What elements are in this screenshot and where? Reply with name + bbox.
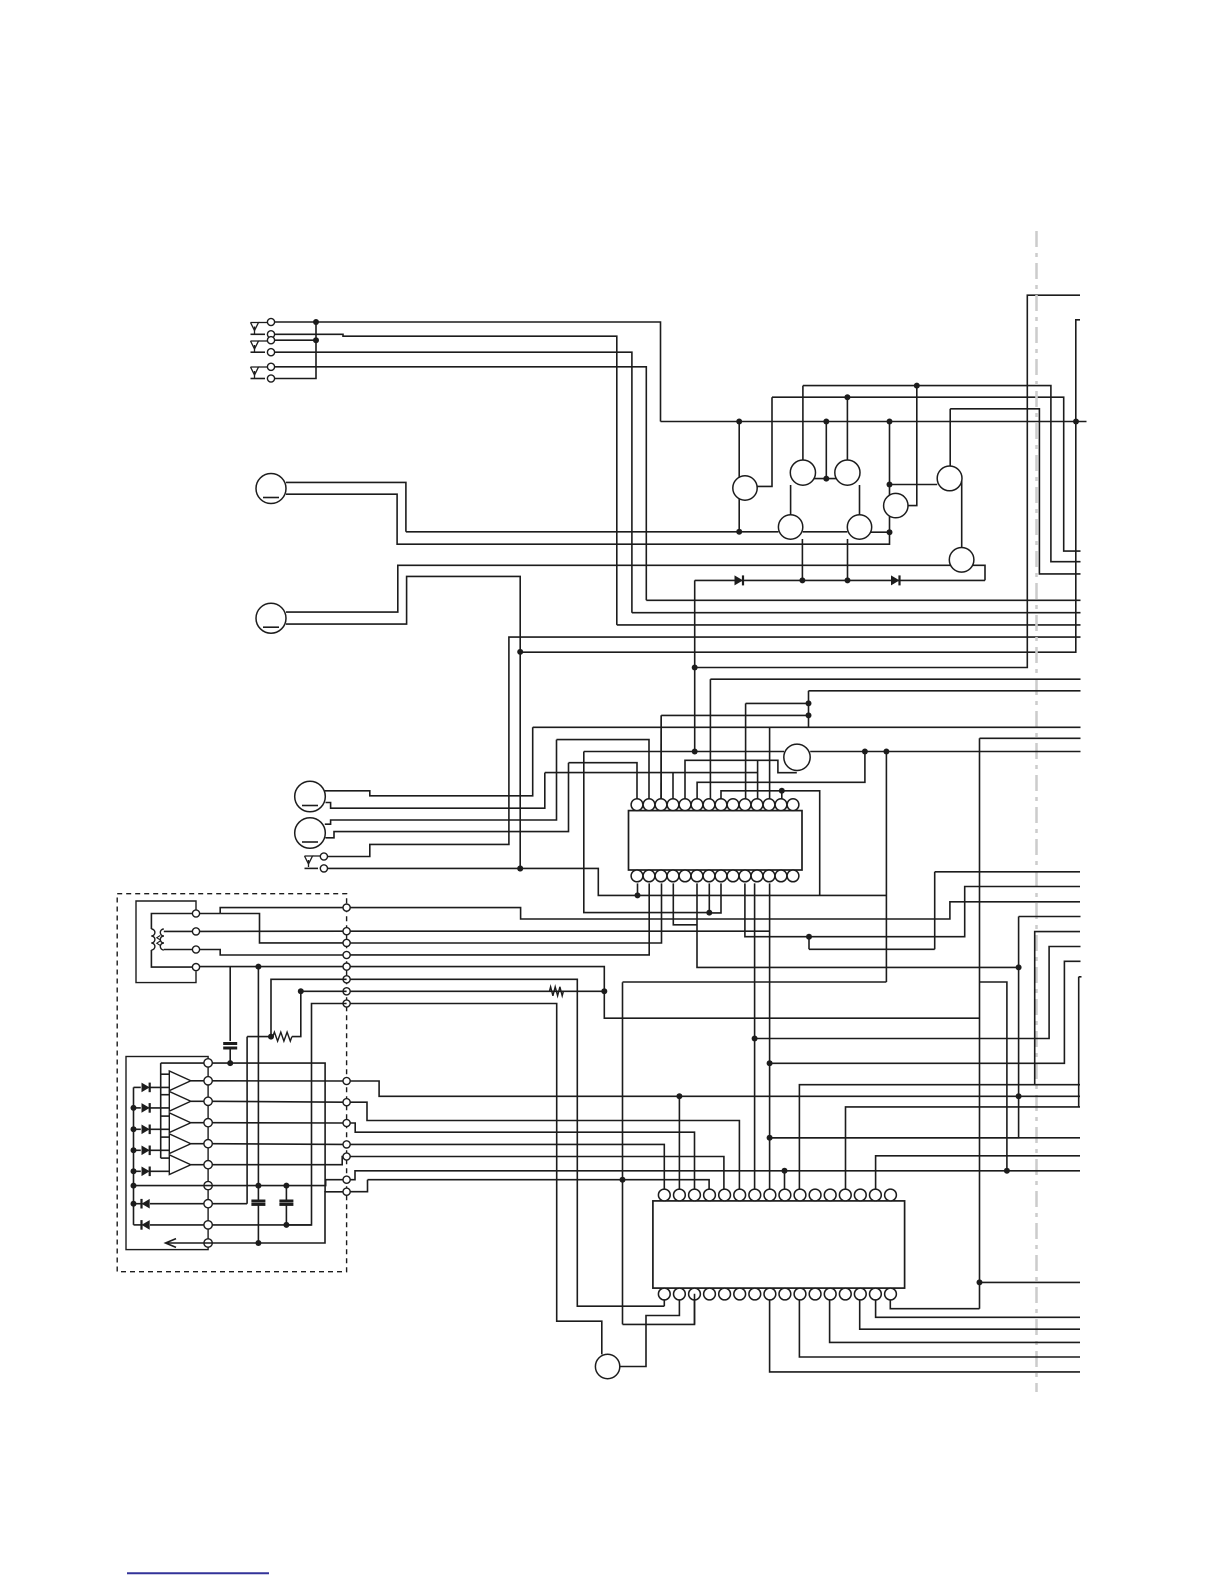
wire c7 cap branch — [285, 1186, 287, 1201]
junction E/258 — [255, 964, 261, 970]
component Q3 — [835, 460, 860, 485]
wire pad2 to B — [200, 930, 343, 932]
wire 531-line — [406, 531, 779, 533]
wire U1p8 net — [721, 791, 820, 896]
wire 889 Q6 bottom — [889, 516, 891, 532]
wire net-E east — [347, 967, 980, 1019]
wire bus to D7 — [134, 1170, 141, 1172]
wire D7 to buffer — [150, 1170, 169, 1172]
IC U1 bottom pin x=661 — [655, 870, 667, 882]
resistor R2 — [549, 987, 563, 996]
junction bus J2 — [313, 337, 319, 343]
terminal C — [343, 939, 350, 946]
wire 695 vertical — [694, 580, 696, 751]
IC U2 bottom pin x=890 — [885, 1288, 897, 1300]
wire U1p6 net — [697, 752, 865, 799]
wire 916-link — [1019, 916, 1081, 918]
wire t7 line — [350, 1180, 367, 1192]
wire Q1 top — [738, 422, 740, 478]
wire U2p12b — [830, 1300, 1080, 1343]
transformer T1 primary coil — [151, 929, 155, 936]
IC U2 top pin x=755 — [749, 1189, 761, 1201]
IC U2 bottom pin x=694 — [689, 1288, 701, 1300]
IC U2 bottom pin x=770 — [764, 1288, 776, 1300]
component Q2 — [790, 460, 815, 485]
wire Q9 line west — [584, 751, 784, 753]
junction diode/Q5 — [845, 577, 851, 583]
wire bus2 stub r5 — [161, 1157, 170, 1159]
wire J4 bottom line — [327, 868, 886, 895]
buffer A1 — [169, 1071, 191, 1091]
component Q6 — [884, 493, 908, 517]
jack J2 tip lead — [251, 351, 266, 353]
wire U1p12b net — [769, 883, 771, 1189]
junction t1/p2 — [676, 1093, 682, 1099]
wire 808 vertical — [808, 691, 810, 727]
wire U1p2b net — [347, 883, 650, 955]
wire T1 primary bottom — [151, 950, 192, 967]
terminal D — [343, 951, 350, 958]
wire U1p13 stub — [781, 791, 783, 799]
wire yA line — [803, 386, 1081, 562]
diode D1 — [735, 575, 744, 585]
wire U1p5 hook — [685, 760, 797, 798]
wire U2p16b — [890, 1300, 979, 1309]
diode D2 — [891, 575, 900, 585]
wire 809 drop — [808, 937, 810, 950]
IC U2 — [653, 1201, 905, 1288]
microphone M2 — [256, 603, 286, 633]
junction c10/258 — [255, 1240, 261, 1246]
wire A1 out — [191, 1080, 204, 1082]
junction pin637b stub — [635, 892, 641, 898]
wire C1 lower lead — [229, 1048, 231, 1063]
IC U2 bottom pin x=785 — [779, 1288, 791, 1300]
wire U1p4 riser — [672, 773, 674, 799]
wire U1p8b stub — [709, 883, 721, 913]
wire U1p11b net — [745, 883, 1080, 936]
IC U2 bottom pin x=875 — [870, 1288, 882, 1300]
wire diode line — [695, 579, 985, 581]
wire bus2 stub r3 — [161, 1115, 170, 1117]
wire C2 upper lead — [257, 1186, 259, 1201]
wire 1076 vertical — [520, 320, 1080, 652]
wire U2p15 riser — [876, 1156, 1080, 1189]
wire line-613 — [632, 612, 1081, 614]
junction 754/1038 — [752, 1036, 758, 1042]
wire M4 bottom lead — [326, 763, 569, 838]
wire 1034 corner — [1035, 932, 1080, 1085]
terminal T3 — [343, 1119, 350, 1126]
wire line-601 — [646, 599, 1080, 601]
IC U2 bottom pin x=725 — [719, 1288, 731, 1300]
wire bus2 stub r2 — [161, 1094, 170, 1096]
wire bus2 stub r4 — [161, 1136, 170, 1138]
junction G/R1 — [298, 988, 304, 994]
terminal T1 — [343, 1077, 350, 1084]
jack J3 plug symbol — [259, 366, 268, 368]
junction 790/781 — [779, 788, 785, 794]
wire t1 line — [350, 1081, 1080, 1096]
wire net-A — [347, 902, 1080, 919]
component Q7 — [937, 466, 962, 491]
diode D5 — [142, 1125, 150, 1135]
wire 826 riser — [825, 422, 827, 479]
wire 889 to Q7 — [890, 484, 938, 486]
component Q10 — [595, 1354, 619, 1378]
wire T1 primary top — [151, 914, 192, 930]
wire c10 west arrow line — [166, 1242, 212, 1244]
wire 258 vertical upper — [257, 967, 259, 1186]
connector pin 2 — [204, 1077, 212, 1085]
IC U1 top pin x=793 — [787, 799, 799, 811]
diode D7 — [142, 1167, 150, 1177]
wire 886 drop — [885, 752, 887, 983]
IC U1 — [629, 811, 803, 870]
IC U1 bottom pin x=637 — [631, 870, 643, 882]
wire Q5 right — [870, 531, 889, 533]
wire M1 top lead — [286, 482, 406, 531]
IC U2 bottom pin x=664 — [658, 1288, 670, 1300]
wire Q3 top — [846, 397, 848, 460]
wire 622 vertical — [622, 982, 624, 1324]
diode D4 — [142, 1103, 150, 1113]
wire Q2 to Q4 — [790, 485, 792, 515]
IC U2 top pin x=740 — [734, 1189, 746, 1201]
component Q9 — [784, 744, 810, 770]
buffer A4 — [169, 1134, 191, 1154]
junction M2-net 868.5 — [517, 866, 523, 872]
junction Q9/886 — [883, 749, 889, 755]
wire r5 out line — [212, 1157, 343, 1165]
terminal T5 — [343, 1153, 350, 1160]
wire C1 riser — [229, 967, 231, 1041]
capacitor C3 — [279, 1200, 293, 1203]
jack J2 sleeve contact — [267, 349, 274, 356]
wire c10 east — [212, 1192, 343, 1243]
IC U2 bottom pin x=845 — [839, 1288, 851, 1300]
component Q1 — [733, 476, 757, 500]
junction t6/982net — [1004, 1168, 1010, 1174]
wire A4 out — [191, 1143, 204, 1145]
wire J3-tip line — [275, 367, 647, 601]
wire D3 to buffer — [150, 1086, 169, 1088]
IC U1 bottom pin x=673 — [667, 870, 679, 882]
terminal T2 — [343, 1099, 350, 1106]
page fold dash-dot line — [1035, 231, 1038, 1392]
wire D8 to pin — [150, 1203, 204, 1205]
component Q8 — [949, 548, 974, 573]
junction Q1-bottom 531.8 — [736, 529, 742, 535]
IC U2 top pin x=860 — [854, 1189, 866, 1201]
wire H inside — [286, 1004, 346, 1225]
wire U1p6b net — [697, 883, 1019, 967]
IC U2 bottom pin x=755 — [749, 1288, 761, 1300]
wire 745 riser — [745, 703, 747, 798]
wire U2p13 riser — [846, 1107, 1081, 1189]
wire t7 east — [368, 1180, 710, 1189]
wire 710 drop — [709, 679, 711, 799]
junction 808/715 — [806, 712, 812, 718]
terminal G — [343, 988, 350, 995]
connector pin 10 — [204, 1239, 212, 1247]
junction 967/1018 — [1016, 964, 1022, 970]
IC U1 bottom pin x=649 — [643, 870, 655, 882]
junction bus r4 — [131, 1147, 137, 1153]
IC U1 top pin x=709 — [703, 799, 715, 811]
IC U1 bottom pin x=721 — [715, 870, 727, 882]
IC U2 top pin x=875 — [870, 1189, 882, 1201]
wire t4 line — [350, 1144, 664, 1189]
junction 695/751 — [692, 749, 698, 755]
arrowhead c10 — [166, 1239, 177, 1248]
IC U2 top pin x=845 — [839, 1189, 851, 1201]
IC U1 top pin x=685 — [679, 799, 691, 811]
wire bus to D6 — [134, 1149, 141, 1151]
wire G inside — [301, 990, 347, 992]
wire bus to D8 — [134, 1203, 141, 1205]
junction 421/889 — [887, 419, 893, 425]
IC U1 bottom pin x=697 — [691, 870, 703, 882]
wire U2p1b — [663, 1300, 665, 1306]
wire U1p4b net — [673, 883, 697, 924]
jack J4 tip contact — [320, 853, 327, 860]
wire U2p2b — [620, 1300, 680, 1367]
jack J4 sleeve contact — [320, 865, 327, 872]
wire M4 top lead — [325, 740, 557, 825]
connector pin 9 — [204, 1221, 212, 1229]
wire pad4 to E — [200, 966, 343, 968]
wire bus to D4 — [134, 1107, 141, 1109]
wire Q5 bottom — [847, 539, 849, 580]
wire A5 out — [191, 1164, 204, 1166]
wire U2p14b — [860, 1300, 1080, 1329]
diode D8 — [142, 1199, 150, 1209]
wire t6 line — [350, 1171, 1080, 1180]
wire line-703 — [746, 702, 809, 704]
junction J4/M2 net — [517, 866, 523, 872]
wire Q9-net west drop — [584, 752, 710, 913]
junction 979/1280 — [977, 1279, 983, 1285]
wire Q4-Q5 link — [803, 531, 848, 533]
component Q5 — [847, 515, 871, 539]
junction 809/936 — [806, 934, 812, 940]
wire Q7 top — [949, 409, 951, 466]
wire 667 line east — [695, 295, 1080, 667]
wire 769 riser — [769, 727, 771, 799]
wire jack ground bus — [275, 322, 317, 379]
wire pad1 branch C — [220, 914, 343, 943]
IC U2 top pin x=725 — [719, 1189, 731, 1201]
diode D6 — [142, 1146, 150, 1156]
IC U1 top pin x=721 — [715, 799, 727, 811]
wire pad1 to A and C — [200, 913, 221, 915]
wire t5 line — [350, 1157, 724, 1190]
wire C3 lower lead — [285, 1204, 287, 1225]
IC U1 bottom pin x=709 — [703, 870, 715, 882]
wire 738-line — [980, 737, 1081, 739]
IC U2 top pin x=664 — [658, 1189, 670, 1201]
junction bus D8 — [131, 1201, 137, 1207]
microphone M1 — [256, 474, 286, 504]
transformer pad 3 — [192, 946, 199, 953]
diode D9 — [142, 1220, 150, 1230]
terminal T7 — [343, 1188, 350, 1195]
wire row0 east — [212, 1063, 325, 1192]
wire 889 riser — [889, 422, 891, 485]
wire M2 top lead — [286, 565, 951, 612]
IC U2 bottom pin x=815 — [809, 1288, 821, 1300]
wire line-715 — [661, 714, 808, 716]
IC U2 top pin x=830 — [824, 1189, 836, 1201]
IC U2 bottom pin x=830 — [824, 1288, 836, 1300]
junction M2-net 651.9 — [517, 649, 523, 655]
wire 1137 link east — [1019, 1137, 1080, 1139]
wire R1 west line — [247, 1036, 273, 1038]
junction c9/286 — [283, 1222, 289, 1228]
wire Q2-Q3 link — [814, 478, 836, 480]
wire U1p3b net — [347, 883, 662, 943]
wire line-727 — [533, 726, 1081, 728]
wire Q4 bottom — [801, 539, 803, 580]
junction yB/Q3 — [844, 394, 850, 400]
IC U2 bottom pin x=740 — [734, 1288, 746, 1300]
wire right bus 1078 — [1078, 977, 1080, 1107]
junction 421/Q2Q3 — [823, 419, 829, 425]
wire line-625 — [617, 624, 1081, 626]
IC U2 bottom pin x=710 — [704, 1288, 716, 1300]
IC U2 top pin x=815 — [809, 1189, 821, 1201]
microphone M3 — [295, 781, 326, 812]
junction bus J1 — [313, 319, 319, 325]
wire Q7 to Q8 — [961, 481, 963, 548]
wire 982 stub east — [980, 982, 1007, 1171]
terminal T4 — [343, 1141, 350, 1148]
jack J3 sleeve contact — [267, 375, 274, 382]
jack J4 tip lead — [305, 867, 319, 869]
wire net-B — [347, 930, 770, 932]
wire D4 to buffer — [150, 1107, 169, 1109]
IC U2 top pin x=710 — [704, 1189, 716, 1201]
wire bus to D9 — [134, 1224, 141, 1226]
wire line-679 — [709, 678, 711, 680]
wire U2p3b — [694, 1300, 696, 1325]
IC U2 top pin x=890 — [885, 1189, 897, 1201]
wire 949-link — [809, 948, 935, 950]
jack J1 plug symbol — [259, 322, 268, 324]
wire T1 secondary bottom — [164, 949, 193, 951]
wire J2-sleeve line — [275, 352, 632, 613]
wire M3 top lead — [325, 727, 533, 796]
wire 934 riser — [934, 872, 936, 950]
wire 871-line — [935, 871, 1080, 873]
junction t6/p9 — [782, 1168, 788, 1174]
wire J2 tip to bus — [275, 339, 317, 341]
wire pad1 jog up — [220, 908, 343, 914]
wire 661 riser — [660, 715, 662, 798]
IC U1 bottom pin x=757 — [751, 870, 763, 882]
transformer core marks — [157, 936, 160, 940]
IC U2 bottom pin x=800 — [794, 1288, 806, 1300]
diode D3 — [142, 1083, 150, 1093]
wire M3 bottom lead — [326, 773, 545, 809]
junction 421/1076 — [1073, 419, 1079, 425]
wire U1p3 net — [660, 715, 662, 798]
transformer pad 4 — [192, 964, 199, 971]
wire U1p2 net — [557, 740, 650, 799]
wire U2p10 riser — [799, 1085, 1080, 1189]
connector pin 6 — [204, 1161, 212, 1169]
junction bus c7 — [131, 1183, 137, 1189]
transformer T1 frame — [136, 901, 196, 983]
wire U1p10b net — [754, 883, 756, 1189]
wire line-679 full — [710, 678, 1080, 680]
wire Q9 line east — [810, 751, 1080, 753]
wire Q3 to Q5 — [859, 485, 861, 515]
jack J1 tip contact — [267, 318, 274, 325]
IC U1 top pin x=637 — [631, 799, 643, 811]
wire pin3b link — [623, 1294, 695, 1325]
IC U1 bottom pin x=685 — [679, 870, 691, 882]
capacitor C1 — [223, 1042, 237, 1045]
wire bus-421 — [661, 421, 1087, 423]
wire M2 bottom lead — [286, 576, 520, 868]
IC U2 top pin x=679 — [674, 1189, 686, 1201]
junction Q9/865 — [862, 749, 868, 755]
connector pin 3 — [204, 1097, 212, 1105]
wire 1038 link — [755, 947, 1081, 1039]
wire buffer input bus — [160, 1063, 162, 1158]
wire net-G east — [347, 990, 605, 992]
junction 421/Q1 — [736, 419, 742, 425]
IC U1 bottom pin x=793 — [787, 870, 799, 882]
junction 695/667 — [692, 665, 698, 671]
IC U1 top pin x=757 — [751, 799, 763, 811]
terminal E — [343, 963, 350, 970]
wire 1018 vertical — [770, 917, 1019, 1138]
junction bus r2 — [131, 1105, 137, 1111]
wire J1-sleeve line with jog — [275, 334, 617, 625]
wire U1p7b stub — [708, 883, 710, 912]
jack J2 plug symbol — [259, 340, 268, 342]
junction bus r5 — [131, 1168, 137, 1174]
junction diode/Q4 — [799, 577, 805, 583]
wire bus to D5 — [134, 1128, 141, 1130]
IC U1 top pin x=769 — [763, 799, 775, 811]
wire D9 to pin — [150, 1224, 204, 1226]
wire bus to D3 — [134, 1086, 141, 1088]
transformer pad 2 — [192, 928, 199, 935]
wire pad3 to D — [200, 950, 343, 956]
wire 1137 link west — [770, 1137, 1019, 1139]
wire 1280-line — [980, 1281, 1081, 1283]
wire c8 east — [212, 1203, 247, 1205]
IC U1 top pin x=673 — [667, 799, 679, 811]
wire A2 out — [191, 1100, 204, 1102]
buffer A5 — [169, 1155, 191, 1175]
wire R1 east riser — [292, 991, 301, 1036]
wire bus2 stub r1 — [161, 1073, 170, 1075]
wire J1 line to right — [316, 322, 661, 422]
wire r3 out line — [212, 1122, 343, 1124]
buffer box — [126, 1057, 208, 1250]
wire D5 to buffer — [150, 1128, 169, 1130]
wire Q6 right up — [908, 386, 917, 506]
wire 889 Q6 top — [889, 485, 891, 496]
wire right bus stub — [1079, 976, 1082, 978]
junction Q2Q3 link — [823, 476, 829, 482]
IC U2 bottom pin x=860 — [854, 1288, 866, 1300]
